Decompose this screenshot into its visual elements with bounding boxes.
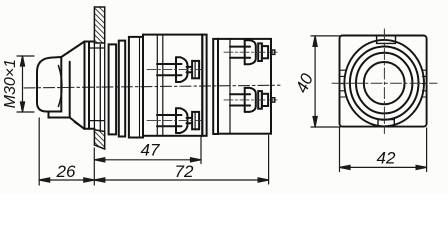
svg-text:72: 72 <box>175 162 194 181</box>
svg-text:40: 40 <box>292 70 317 96</box>
svg-text:42: 42 <box>377 149 396 168</box>
svg-text:26: 26 <box>56 162 76 181</box>
svg-text:M30×1: M30×1 <box>2 59 19 108</box>
svg-text:47: 47 <box>141 141 160 160</box>
